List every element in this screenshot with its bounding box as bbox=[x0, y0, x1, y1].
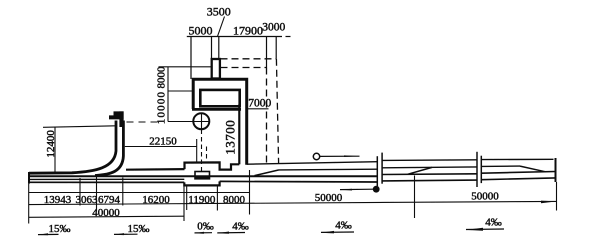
svg-text:8000: 8000 bbox=[223, 194, 246, 206]
spur outer rail bbox=[29, 121, 116, 174]
outer canopy dashed top bbox=[221, 58, 277, 60]
track line4 right bbox=[220, 180, 378, 183]
break mark 2 right bbox=[480, 156, 482, 183]
buffer stop bar bbox=[119, 111, 123, 127]
dim 7000 line bbox=[248, 108, 269, 110]
break mark 1 right bbox=[381, 153, 383, 184]
centerline dashes buffer to circle bbox=[127, 121, 163, 123]
station square base bbox=[195, 177, 210, 179]
platform bump bbox=[185, 162, 240, 169]
track line2 main left bbox=[29, 175, 378, 177]
buffer stop flange bbox=[109, 111, 124, 119]
extension x184 bbox=[183, 187, 185, 222]
svg-text:17900: 17900 bbox=[233, 24, 263, 38]
extension x556.5 bbox=[556, 182, 558, 211]
chimney bbox=[212, 59, 220, 79]
corridor left wall bbox=[238, 105, 240, 165]
line4 span3 bbox=[481, 178, 555, 180]
svg-text:11900: 11900 bbox=[188, 194, 216, 206]
extension x217.4 bbox=[216, 187, 218, 211]
station square bbox=[195, 172, 210, 179]
svg-text:22150: 22150 bbox=[149, 136, 177, 148]
svg-text:5000: 5000 bbox=[189, 24, 213, 38]
svg-text:8000: 8000 bbox=[155, 66, 167, 89]
extension line inner canopy right bbox=[266, 37, 268, 68]
slope underline 15b bbox=[114, 233, 138, 235]
svg-text:15‰: 15‰ bbox=[49, 223, 71, 235]
svg-text:10000: 10000 bbox=[155, 91, 167, 125]
spur inner rail bbox=[95, 121, 123, 176]
extension line chimney right bbox=[218, 37, 220, 59]
svg-text:50000: 50000 bbox=[315, 192, 343, 204]
svg-text:3500: 3500 bbox=[207, 5, 231, 19]
water tower axis vertical bbox=[201, 114, 203, 130]
slope underline 4a bbox=[217, 232, 245, 234]
dim 12400 top tick line bbox=[43, 126, 116, 128]
dim 12400 vertical line bbox=[54, 127, 56, 173]
extension line building left bbox=[190, 37, 192, 80]
slope underline 4c bbox=[466, 228, 504, 231]
dim row line C bbox=[29, 216, 184, 217]
vertical dim column line bbox=[167, 67, 169, 122]
inner canopy dashed top bbox=[221, 67, 267, 69]
line2 span2 bbox=[382, 166, 477, 169]
slope underline 15a bbox=[38, 233, 59, 235]
line2 merge diagonal bbox=[520, 166, 545, 172]
track line3 left bbox=[29, 178, 184, 180]
station building outline bbox=[193, 79, 247, 165]
track line4 left bbox=[29, 181, 184, 183]
top dimension line bbox=[187, 36, 291, 38]
line B arrowhead bbox=[541, 201, 557, 204]
svg-text:50000: 50000 bbox=[471, 190, 499, 202]
track line2 right bbox=[279, 168, 378, 171]
inner canopy dashed right bbox=[266, 68, 268, 164]
svg-text:15‰: 15‰ bbox=[128, 223, 150, 235]
extension x80 bbox=[79, 178, 81, 206]
svg-text:3000: 3000 bbox=[262, 22, 285, 34]
slope underline 4b bbox=[321, 231, 354, 233]
extension x186.7 bbox=[186, 187, 188, 211]
station building bottom edge bbox=[192, 108, 241, 111]
break mark 1 left bbox=[376, 156, 378, 186]
line2 span3 bbox=[481, 165, 520, 167]
line3 main span3 bbox=[481, 172, 555, 174]
line1 span2 bbox=[382, 159, 477, 162]
station building window rect bbox=[200, 90, 239, 106]
right track end bar bbox=[555, 158, 557, 182]
svg-text:4‰: 4‰ bbox=[232, 220, 249, 232]
extension x414.5 bbox=[414, 176, 416, 219]
extension x249.5 bbox=[249, 170, 251, 215]
extension x96.5 bbox=[96, 177, 98, 212]
turnout diagonal to line2 bbox=[255, 170, 280, 176]
svg-text:13943: 13943 bbox=[44, 194, 72, 206]
left track end bar bbox=[28, 172, 30, 184]
open circle signal bbox=[313, 153, 319, 159]
dashed axis below circle bbox=[201, 130, 203, 172]
dim 22150 right tick bbox=[196, 139, 198, 162]
outer canopy dashed right bbox=[276, 59, 278, 163]
lower platform trough bbox=[184, 181, 219, 185]
dashed axis right of circle bbox=[206, 147, 208, 163]
break mark 2 left bbox=[476, 152, 478, 187]
filled dot signal line bbox=[340, 188, 373, 190]
slope underline 0 bbox=[195, 232, 213, 234]
line3 main span2 bbox=[382, 173, 477, 176]
tick mid 8000/10000 bbox=[168, 90, 193, 92]
turnout diagonal span2 bbox=[408, 167, 433, 174]
platform shelf left bbox=[126, 168, 185, 171]
dim 22150 line bbox=[125, 146, 197, 148]
extension x122.8 bbox=[122, 178, 124, 206]
svg-text:7000: 7000 bbox=[248, 98, 271, 110]
line1 span3 bbox=[481, 158, 553, 160]
tick bottom 10000 bbox=[168, 121, 209, 123]
filled dot signal bbox=[373, 186, 380, 193]
svg-text:3063: 3063 bbox=[76, 194, 99, 206]
extension x29 bbox=[28, 184, 30, 224]
svg-text:6794: 6794 bbox=[98, 194, 121, 206]
svg-text:13700: 13700 bbox=[223, 120, 238, 155]
svg-text:40000: 40000 bbox=[92, 207, 120, 219]
extension line chimney left bbox=[211, 37, 213, 59]
svg-text:12400: 12400 bbox=[45, 130, 57, 158]
line4 span2 bbox=[382, 179, 477, 182]
water tower circle bbox=[193, 113, 209, 129]
dim row line A bbox=[29, 192, 250, 194]
svg-text:4‰: 4‰ bbox=[335, 219, 352, 231]
extension line outer canopy right bbox=[275, 37, 277, 59]
line1 right of corridor bbox=[247, 162, 378, 165]
dim row line B bbox=[29, 201, 557, 204]
inner canopy top solid bbox=[159, 66, 212, 68]
open circle signal line bbox=[320, 155, 360, 157]
svg-text:16200: 16200 bbox=[142, 194, 170, 206]
svg-text:4‰: 4‰ bbox=[485, 216, 502, 228]
svg-text:0‰: 0‰ bbox=[197, 220, 214, 232]
leader 3500 bbox=[218, 17, 225, 37]
